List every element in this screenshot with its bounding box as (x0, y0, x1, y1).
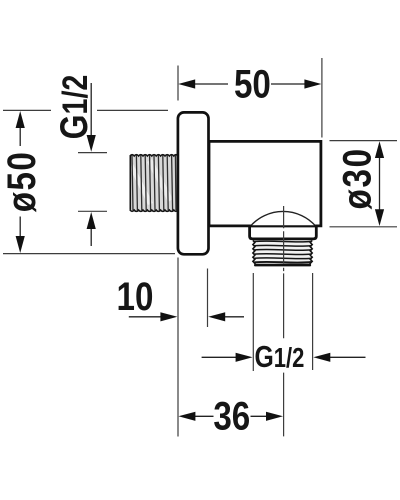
svg-text:G1/2: G1/2 (255, 339, 305, 373)
outlet thread G1/2 (bottom, horizontal bands) (253, 240, 312, 265)
svg-text:ø30: ø30 (335, 147, 379, 209)
centerline of outlet (283, 206, 285, 436)
dim ø30: dimension line with outward arrowheads (375, 141, 384, 226)
dim ø50: dimension line with outward arrowheads (16, 111, 25, 253)
dim G1/2 top: arrow pointing down (87, 83, 96, 152)
svg-text:50: 50 (234, 62, 271, 106)
wall thread G1/2 (left, vertical lines) (130, 155, 178, 212)
dim 36: dimension line with outward arrowheads (178, 412, 283, 421)
dim 10: arrow pointing right (129, 312, 178, 321)
outlet dome face (250, 211, 316, 226)
svg-text:G1/2: G1/2 (52, 75, 96, 140)
extension line below outlet thread right (312, 273, 314, 370)
dim ø50: extension line top (3, 109, 168, 111)
svg-text:10: 10 (117, 274, 154, 318)
svg-text:36: 36 (213, 394, 250, 438)
dim ø30: extension line bottom (330, 226, 398, 228)
dim G1/2 bottom: arrow pointing right (202, 353, 253, 362)
dim 50: dimension line with outward arrowheads (178, 79, 321, 88)
extension line below flange left face (177, 258, 179, 437)
dim 50: extension line left (above flange) (177, 66, 179, 101)
dim G1/2 bottom: arrow pointing left (313, 353, 365, 362)
dim 50: extension line right (above body) (321, 58, 323, 138)
dim G1/2 top: extension line lower (78, 210, 107, 212)
svg-text:ø50: ø50 (0, 151, 43, 212)
dim G1/2 top: extension line upper (78, 152, 107, 154)
dim ø50: extension line bottom (3, 253, 175, 255)
extension line below outlet thread left (252, 273, 254, 371)
dim 10: arrow pointing left (208, 312, 244, 321)
dim ø30: extension line top (330, 140, 398, 142)
extension line below flange right face (207, 269, 209, 328)
wall plate flange (178, 112, 209, 254)
body elbow block outline (209, 141, 321, 239)
dim G1/2 top: arrow pointing up (87, 212, 96, 246)
